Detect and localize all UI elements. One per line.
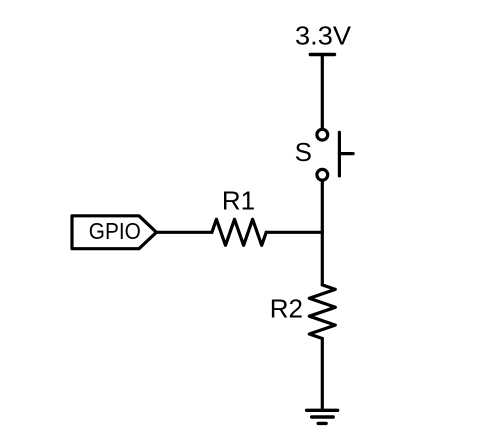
wire GPIO to R1 — [156, 231, 212, 234]
wire R2 to ground — [321, 339, 324, 411]
svg-text:S: S — [295, 137, 312, 167]
wire R1 to node — [266, 231, 322, 234]
ground bar 3 — [318, 422, 326, 425]
svg-text:GPIO: GPIO — [89, 218, 141, 244]
power supply Vdd bar — [310, 53, 334, 56]
GPIO tag — [72, 216, 156, 249]
pushbutton S actuator stub — [339, 152, 353, 155]
wire switch to node — [321, 181, 324, 232]
wire node to R2 — [321, 232, 324, 285]
ground bar 1 — [307, 409, 338, 412]
svg-text:R2: R2 — [270, 294, 303, 324]
svg-text:R1: R1 — [222, 186, 255, 216]
pushbutton S top terminal circle — [317, 129, 328, 140]
pushbutton S bottom terminal circle — [317, 169, 328, 180]
ground bar 2 — [312, 415, 334, 418]
wire Vdd to switch — [321, 55, 324, 129]
resistor R1 — [212, 219, 266, 245]
resistor R2 — [309, 285, 335, 339]
svg-text:3.3V: 3.3V — [295, 21, 352, 51]
pushbutton S actuator bar — [338, 132, 341, 176]
